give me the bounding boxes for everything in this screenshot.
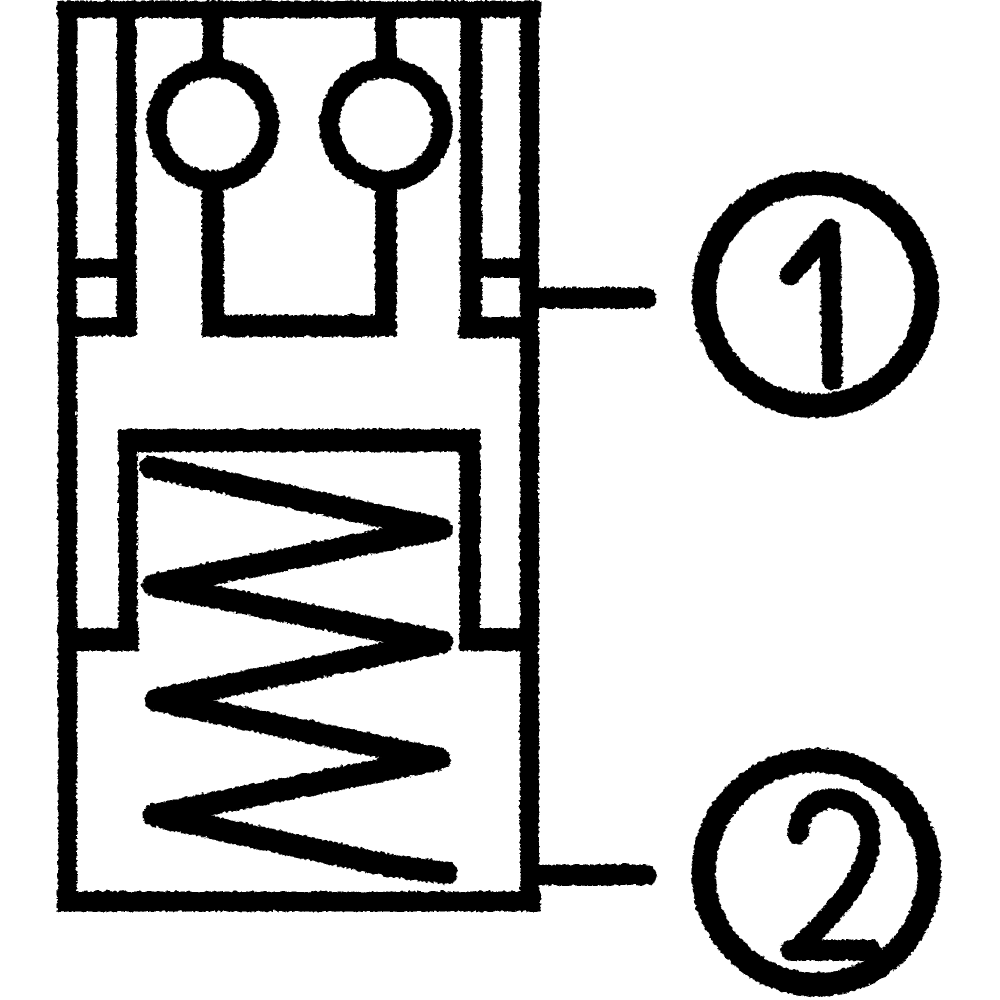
ball circle left <box>156 67 269 180</box>
spring cage top bar <box>117 428 480 451</box>
housing bottom edge <box>56 891 540 911</box>
left seat bar <box>74 317 136 336</box>
port 2 lead line <box>536 864 645 885</box>
spring cage right wall <box>459 429 480 650</box>
housing top edge <box>56 0 540 17</box>
housing left wall <box>57 0 76 910</box>
left upper crossbar <box>74 258 118 277</box>
digit 2 label <box>790 798 870 949</box>
right upper crossbar <box>480 258 522 277</box>
port 2 balloon circle <box>703 760 929 984</box>
port 1 lead line <box>536 287 645 308</box>
U channel between balls <box>212 185 385 325</box>
right seat bar <box>458 316 523 337</box>
housing right wall <box>519 0 538 910</box>
left ball upper stem <box>202 14 223 62</box>
spring cage left wall <box>118 429 137 650</box>
port 1 balloon circle <box>703 182 926 405</box>
inner right liner <box>459 2 481 337</box>
spring cage right foot bar <box>458 627 522 650</box>
ball circle right <box>329 67 442 180</box>
right ball upper stem <box>375 14 396 62</box>
spring cage left foot bar <box>74 627 138 650</box>
inner left liner <box>116 2 136 334</box>
spring zigzag <box>150 466 445 872</box>
digit 1 label <box>789 228 832 379</box>
